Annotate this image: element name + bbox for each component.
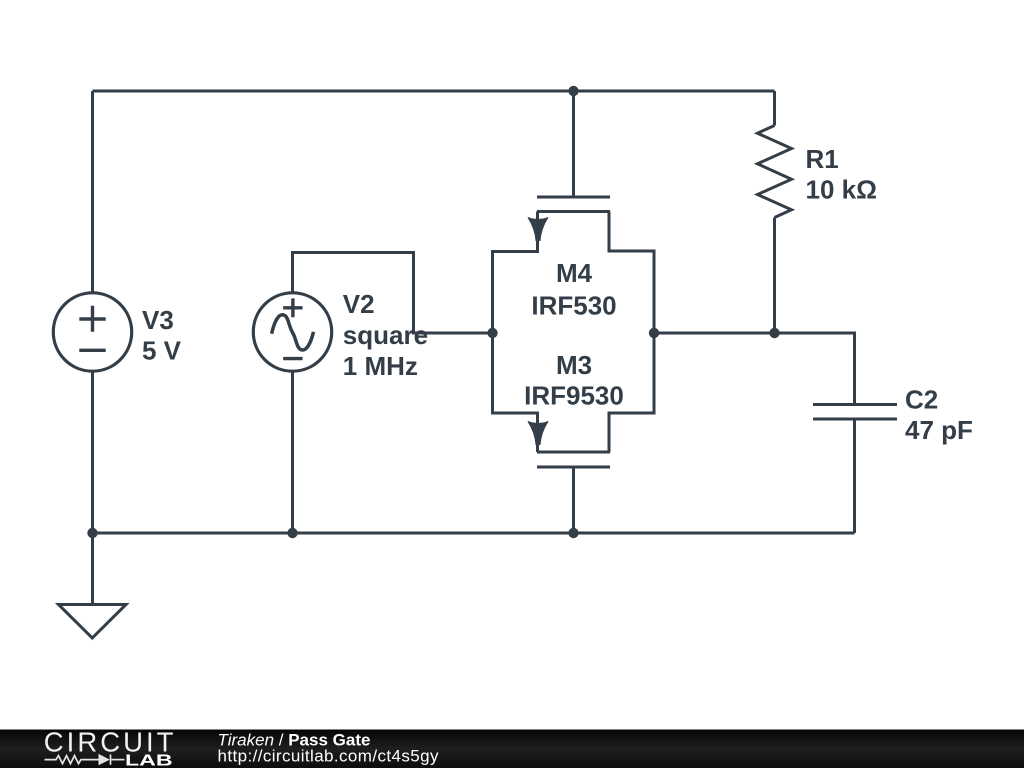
wire V2 bottom lead bbox=[291, 372, 294, 533]
transistor M3 source arrow bbox=[528, 421, 548, 444]
wire V3 top lead bbox=[91, 91, 94, 292]
wire ground lead bbox=[91, 533, 94, 605]
wire M4 gate lead bbox=[572, 91, 575, 196]
voltage source V2 bbox=[253, 293, 331, 371]
voltage source V3 bbox=[53, 293, 131, 371]
svg-text:V3: V3 bbox=[142, 305, 174, 335]
ground bbox=[59, 605, 127, 639]
svg-text:square: square bbox=[343, 320, 428, 350]
CircuitLab logo resistor squiggle and diode bbox=[45, 754, 125, 764]
wire M3 gate lead bbox=[572, 467, 575, 533]
junction dot pass gate output node bbox=[649, 328, 659, 338]
wire top rail (node VDD) bbox=[93, 90, 775, 93]
svg-text:1 MHz: 1 MHz bbox=[343, 351, 418, 381]
transistor M4 source arrow bbox=[528, 217, 548, 240]
wire R1 top lead bbox=[773, 91, 776, 126]
junction dot output node / R1 bbox=[769, 328, 779, 338]
transistor M3 (pass gate bottom half) bbox=[537, 452, 610, 467]
junction dot bottom rail / V2 bbox=[287, 528, 297, 538]
resistor R1 bbox=[758, 126, 792, 218]
wire R1 bottom lead bbox=[773, 218, 776, 334]
svg-text:R1: R1 bbox=[806, 144, 839, 174]
svg-text:LAB: LAB bbox=[125, 752, 173, 768]
junction dot pass gate input node bbox=[487, 328, 497, 338]
svg-text:M3: M3 bbox=[556, 350, 592, 380]
svg-text:47 pF: 47 pF bbox=[905, 415, 973, 445]
svg-text:IRF9530: IRF9530 bbox=[524, 381, 624, 411]
svg-text:M4: M4 bbox=[556, 258, 593, 288]
svg-text:10 kΩ: 10 kΩ bbox=[806, 175, 877, 205]
junction dot top rail / M4 gate bbox=[568, 86, 578, 96]
transistor M4 (pass gate top half) bbox=[493, 197, 655, 452]
wire bottom rail (node GND) bbox=[93, 532, 855, 535]
footer bar bbox=[0, 730, 1024, 768]
junction dot bottom rail / V3 / ground bbox=[87, 528, 97, 538]
svg-text:C2: C2 bbox=[905, 384, 938, 414]
svg-text:IRF530: IRF530 bbox=[531, 291, 616, 321]
capacitor C2 bbox=[813, 405, 897, 420]
svg-text:http://circuitlab.com/ct4s5gy: http://circuitlab.com/ct4s5gy bbox=[218, 747, 439, 766]
wire C2 bottom lead bbox=[853, 419, 856, 533]
svg-text:V2: V2 bbox=[343, 289, 375, 319]
wire V3 bottom lead bbox=[91, 373, 94, 534]
wire V2 top lead to pass gate input node bbox=[293, 253, 493, 334]
svg-text:5 V: 5 V bbox=[142, 336, 182, 366]
wire pass gate output node to C2 top bbox=[654, 333, 855, 405]
junction dot bottom rail / M3 gate bbox=[568, 528, 578, 538]
